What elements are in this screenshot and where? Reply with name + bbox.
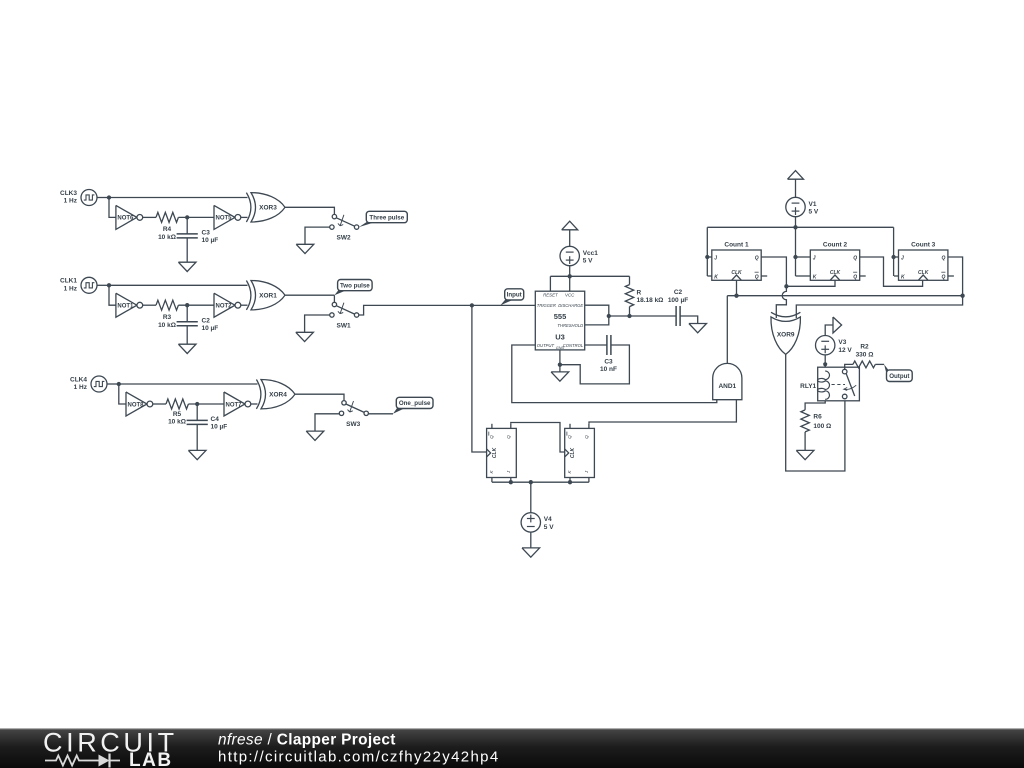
- voltage source V3: [816, 336, 853, 355]
- svg-text:One_pulse: One_pulse: [399, 400, 431, 407]
- svg-text:Output: Output: [889, 373, 909, 380]
- wire XOR1 output: [285, 294, 334, 296]
- svg-text:CLK: CLK: [492, 447, 498, 458]
- capacitor C2: [668, 289, 688, 326]
- svg-text:CLK3: CLK3: [60, 190, 77, 197]
- svg-text:Q: Q: [942, 274, 946, 280]
- svg-text:K: K: [813, 274, 817, 280]
- capacitor C3: [177, 230, 219, 244]
- node rail b: [529, 480, 533, 484]
- wire C4 to ground: [196, 424, 198, 450]
- ground C2: [689, 324, 707, 333]
- wire junction to C2cap: [186, 305, 188, 322]
- svg-text:J: J: [714, 255, 717, 261]
- svg-text:10 nF: 10 nF: [600, 366, 617, 373]
- wire V3 top: [825, 325, 833, 335]
- node row1 B: [185, 215, 189, 219]
- svg-text:AND1: AND1: [718, 383, 736, 390]
- wire row3 top to XOR4: [119, 383, 258, 385]
- wire VCC pin up: [569, 276, 571, 291]
- svg-text:330 Ω: 330 Ω: [856, 351, 874, 358]
- wire row1 down to NOT6: [109, 198, 116, 218]
- svg-text:5 V: 5 V: [544, 524, 554, 531]
- wire relay coil to R6: [805, 401, 825, 410]
- inverter NOT7: [224, 392, 251, 416]
- svg-text:SW3: SW3: [346, 421, 360, 428]
- svg-text:100 Ω: 100 Ω: [813, 423, 831, 430]
- node C3 J node: [891, 255, 895, 259]
- wire NOT2 to XOR1: [241, 304, 248, 306]
- svg-text:12 V: 12 V: [838, 347, 852, 354]
- svg-text:http://circuitlab.com/czfhy22y: http://circuitlab.com/czfhy22y42hp4: [218, 749, 500, 766]
- bottom bar: [0, 728, 1024, 768]
- svg-text:10 µF: 10 µF: [202, 325, 219, 332]
- wire Vcc rail: [550, 275, 629, 277]
- wire XOR9 output: [786, 354, 845, 471]
- wire Count1 Q: [761, 257, 786, 286]
- resistor R6: [801, 410, 831, 432]
- wire NOT5 to XOR3: [241, 216, 248, 218]
- svg-text:10 kΩ: 10 kΩ: [158, 234, 176, 241]
- switch SW1: [330, 302, 359, 329]
- capacitor C2 (10uF): [177, 318, 219, 332]
- wire FFB Q to AND1: [589, 400, 736, 424]
- svg-text:Q: Q: [853, 274, 857, 280]
- node row1 A: [107, 195, 111, 199]
- svg-text:NOT6: NOT6: [117, 216, 134, 222]
- wire V3 to relay: [824, 355, 826, 367]
- wire R bottom lead: [629, 307, 631, 316]
- flip-flop FF A: [487, 424, 517, 482]
- wire flag to SW1: [333, 295, 335, 302]
- svg-text:Two pulse: Two pulse: [340, 282, 370, 289]
- svg-text:1 Hz: 1 Hz: [64, 286, 78, 293]
- wire row2 top to XOR1: [109, 284, 248, 286]
- wire rail to C3 JK: [893, 227, 895, 276]
- svg-text:V1: V1: [809, 201, 817, 208]
- svg-text:J: J: [901, 255, 904, 261]
- ground SW1: [296, 332, 314, 341]
- svg-text:U3: U3: [555, 333, 565, 342]
- svg-text:K: K: [714, 274, 718, 280]
- ground R6: [796, 450, 814, 459]
- wire C3 loop: [560, 345, 630, 384]
- wire NOT6 to R4: [143, 216, 156, 218]
- wire C2cap to ground: [186, 326, 188, 345]
- XOR gate XOR9: [771, 312, 800, 354]
- switch SW3: [339, 401, 368, 428]
- wire R3 to NOT2: [178, 304, 214, 306]
- wire Count3 Q: [948, 257, 963, 296]
- svg-text:XOR9: XOR9: [777, 332, 795, 339]
- capacitor C4: [187, 416, 228, 430]
- wire SW1 to Input net: [359, 305, 472, 315]
- node V1 node: [793, 225, 797, 229]
- svg-text:Q: Q: [506, 435, 511, 439]
- svg-text:Count 2: Count 2: [823, 241, 848, 248]
- svg-text:V3: V3: [838, 339, 846, 346]
- svg-text:18.18 kΩ: 18.18 kΩ: [637, 297, 664, 304]
- ground row3 C4: [188, 450, 206, 459]
- svg-text:THRESHOLD: THRESHOLD: [557, 323, 583, 328]
- svg-text:10 kΩ: 10 kΩ: [168, 419, 186, 426]
- CircuitLab logo: [43, 728, 178, 768]
- wire CLK3 to junction: [97, 197, 109, 199]
- svg-text:100 µF: 100 µF: [668, 297, 688, 304]
- node discharge node: [607, 314, 611, 318]
- wire C2 to ground: [680, 316, 698, 324]
- clock source CLK1: [60, 277, 97, 293]
- wire R4 to NOT5: [178, 216, 214, 218]
- svg-text:Q: Q: [567, 435, 572, 439]
- svg-text:C3: C3: [604, 359, 613, 366]
- wire NOT7 to XOR4: [251, 403, 258, 405]
- node row3 B: [195, 402, 199, 406]
- flag Three pulse: [359, 211, 407, 227]
- svg-text:NOT5: NOT5: [215, 216, 232, 222]
- svg-text:RLY1: RLY1: [800, 383, 816, 390]
- svg-text:Count 3: Count 3: [911, 241, 936, 248]
- wire rail to C2 JK: [795, 227, 797, 276]
- JK flip-flop Count 1: [707, 241, 767, 280]
- node R-C2 node: [627, 314, 631, 318]
- wire NOT1 to R3: [143, 304, 156, 306]
- svg-text:NOT1: NOT1: [117, 304, 134, 310]
- AND gate AND1: [713, 363, 742, 399]
- svg-text:10 kΩ: 10 kΩ: [158, 322, 176, 329]
- svg-text:CLK4: CLK4: [70, 376, 87, 383]
- wire V4 to ground: [530, 532, 532, 548]
- clock source CLK3: [60, 190, 97, 206]
- svg-text:XOR4: XOR4: [269, 392, 287, 399]
- svg-text:Q: Q: [755, 274, 759, 280]
- wire CLK4 to junction: [107, 383, 119, 385]
- voltage source Vcc1: [560, 246, 598, 265]
- inverter NOT8: [126, 392, 153, 416]
- wire SW2 to ground: [305, 227, 330, 244]
- svg-text:R2: R2: [860, 344, 869, 351]
- flip-flop FF B: [565, 424, 595, 482]
- svg-text:XOR1: XOR1: [259, 293, 277, 300]
- node rail c: [568, 480, 572, 484]
- wire OUTPUT wire: [512, 345, 717, 403]
- wire R5 to NOT7: [188, 403, 224, 405]
- voltage source V1: [786, 197, 819, 216]
- svg-text:R5: R5: [173, 411, 182, 418]
- node Vcc1 node: [568, 274, 572, 278]
- flag Output: [884, 364, 912, 381]
- wire Q3 to XOR9: [796, 296, 962, 318]
- IC 555 timer U3: [535, 291, 584, 350]
- wire SW3 to ground: [315, 414, 339, 431]
- svg-text:SW2: SW2: [337, 235, 351, 242]
- node row2 A: [107, 283, 111, 287]
- svg-text:1 Hz: 1 Hz: [64, 198, 78, 205]
- inverter NOT2: [214, 293, 241, 317]
- wire Q1 down with hop: [776, 286, 786, 318]
- wire row2 down to NOT1: [109, 285, 116, 305]
- flag One_pulse: [393, 397, 433, 414]
- wire junction to C3: [186, 217, 188, 234]
- flag Two pulse: [334, 280, 372, 296]
- wire SW1 to ground: [305, 315, 330, 332]
- resistor R5: [166, 399, 188, 426]
- svg-text:555: 555: [554, 312, 567, 321]
- wire to C2: [609, 315, 676, 317]
- node Q3 node: [960, 294, 964, 298]
- svg-text:CLK1: CLK1: [60, 278, 77, 285]
- wire NOT8 to R5: [153, 403, 166, 405]
- wire V1 rail: [707, 226, 893, 228]
- wire V4 stem: [530, 482, 532, 513]
- JK flip-flop Count 3: [894, 241, 954, 280]
- wire GND pin: [559, 350, 561, 365]
- node Q1 node: [784, 284, 788, 288]
- svg-text:10 µF: 10 µF: [211, 424, 228, 431]
- ground U3 GND: [551, 372, 569, 381]
- wire RESET pin up: [549, 276, 551, 291]
- svg-text:Count 1: Count 1: [724, 241, 749, 248]
- svg-text:J: J: [813, 255, 816, 261]
- wire row3 down to NOT8: [119, 384, 126, 404]
- node V3-coil with arrowhead: [823, 362, 827, 368]
- svg-text:V4: V4: [544, 516, 552, 523]
- wire junction to C4: [196, 404, 198, 420]
- svg-text:Q: Q: [584, 435, 589, 439]
- svg-text:VCC: VCC: [565, 293, 575, 298]
- clock source CLK4: [70, 376, 107, 392]
- svg-text:10 µF: 10 µF: [202, 237, 219, 244]
- svg-text:NOT7: NOT7: [225, 402, 242, 408]
- svg-text:Three pulse: Three pulse: [369, 214, 404, 221]
- wire Vcc1 stem: [569, 266, 571, 277]
- svg-text:RESET: RESET: [543, 293, 558, 298]
- wire AND1 to clk rail: [727, 295, 962, 297]
- wire row1 top to XOR3: [109, 197, 248, 199]
- wire FFA Q to FFB clk: [511, 423, 565, 453]
- power arrow V3: [833, 317, 842, 333]
- ground SW2: [296, 244, 314, 253]
- svg-text:R4: R4: [163, 226, 172, 233]
- wire Input to TRIGGER: [472, 304, 535, 306]
- svg-text:TRIGGER: TRIGGER: [537, 303, 556, 308]
- svg-text:R3: R3: [163, 314, 172, 321]
- JK flip-flop Count 2: [796, 241, 866, 280]
- svg-text:NOT8: NOT8: [127, 402, 144, 408]
- wire Input down to FFA clk: [472, 305, 487, 452]
- node clk rail node: [734, 294, 738, 298]
- svg-text:5 V: 5 V: [583, 258, 593, 265]
- svg-text:Q: Q: [853, 255, 857, 261]
- svg-text:C4: C4: [211, 416, 220, 423]
- svg-text:C2: C2: [674, 289, 683, 296]
- svg-text:Input: Input: [507, 292, 522, 299]
- resistor R3: [156, 300, 178, 329]
- wire SW3 to One_pulse: [368, 413, 393, 415]
- svg-text:DISCHARGE: DISCHARGE: [558, 303, 583, 308]
- power arrow Vcc1: [562, 221, 578, 230]
- wire C3 to ground: [186, 238, 188, 262]
- svg-text:K: K: [901, 274, 905, 280]
- svg-text:LAB: LAB: [129, 750, 173, 768]
- wire Count1 CLK pin: [736, 280, 738, 295]
- relay RLY1: [800, 367, 859, 401]
- wire AND1 output: [726, 296, 728, 364]
- ground V4: [522, 548, 540, 557]
- svg-text:5 V: 5 V: [809, 209, 819, 216]
- wire Count2 Q: [860, 257, 923, 286]
- switch SW2: [330, 214, 359, 241]
- svg-text:SW1: SW1: [337, 323, 351, 330]
- wire R6 to ground: [804, 432, 806, 451]
- wire GND stem: [559, 365, 561, 372]
- wire V1 stem top: [795, 179, 797, 197]
- XOR gate XOR4: [256, 380, 295, 409]
- svg-text:GND: GND: [556, 346, 565, 350]
- svg-text:R: R: [637, 290, 642, 297]
- node C2 J node: [793, 255, 797, 259]
- svg-text:Q: Q: [755, 255, 759, 261]
- resistor R4: [156, 212, 178, 241]
- node row2 B: [185, 303, 189, 307]
- ground row2 C2: [178, 344, 196, 353]
- inverter NOT1: [116, 293, 143, 317]
- wire rail to C1 JK: [706, 227, 708, 276]
- wire CLK1 to junction: [97, 284, 109, 286]
- svg-text:Vcc1: Vcc1: [583, 250, 599, 257]
- svg-text:C2: C2: [202, 318, 211, 325]
- ground row1 C3: [178, 262, 196, 271]
- wire XOR4 output: [295, 394, 344, 400]
- wire V4 rail: [492, 481, 589, 483]
- node GND node: [558, 363, 562, 367]
- voltage source V4: [521, 513, 554, 532]
- svg-text:CONTROL: CONTROL: [563, 343, 584, 348]
- inverter NOT6: [116, 205, 143, 229]
- resistor R: [625, 285, 663, 307]
- wire relay NO pin up: [845, 364, 853, 369]
- wire DISCHARGE wire: [585, 305, 609, 325]
- wire XOR3 output: [285, 207, 334, 214]
- wire CONTROL wire: [585, 344, 607, 346]
- node Input node: [470, 303, 474, 307]
- node rail a: [509, 480, 513, 484]
- svg-text:OUTPUT: OUTPUT: [537, 343, 555, 348]
- wire R top lead: [629, 276, 631, 284]
- wire R2 to Output: [875, 363, 884, 365]
- wire Vcc1 up stem: [569, 230, 571, 247]
- wire Q1 to Count2 clk: [786, 280, 835, 286]
- footer text: [218, 732, 500, 766]
- resistor R2: [853, 361, 875, 368]
- node row3 A: [117, 382, 121, 386]
- svg-text:1 Hz: 1 Hz: [74, 384, 88, 391]
- XOR gate XOR1: [246, 281, 285, 310]
- XOR gate XOR3: [246, 193, 285, 222]
- power arrow V1: [788, 171, 804, 180]
- inverter NOT5: [214, 205, 241, 229]
- wire V1 stem bottom: [795, 217, 797, 228]
- svg-text:NOT2: NOT2: [215, 304, 232, 310]
- svg-text:XOR3: XOR3: [259, 205, 277, 212]
- svg-text:nfrese / Clapper Project: nfrese / Clapper Project: [218, 732, 396, 749]
- svg-text:CLK: CLK: [570, 447, 576, 458]
- svg-text:Q: Q: [489, 435, 494, 439]
- flag Input: [500, 289, 523, 306]
- svg-text:C3: C3: [202, 230, 211, 237]
- capacitor C3 (10nF): [600, 335, 617, 373]
- node C1 J node: [705, 255, 709, 259]
- label R2: [856, 344, 874, 359]
- svg-text:R6: R6: [813, 414, 822, 421]
- svg-text:Q: Q: [942, 255, 946, 261]
- ground SW3: [306, 431, 324, 440]
